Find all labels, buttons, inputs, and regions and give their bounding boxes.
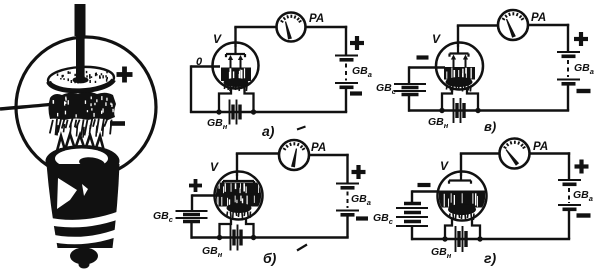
wire: GBc to bottom rail (circuit b) — [190, 222, 192, 239]
label GBa (circuit g) — [573, 189, 593, 203]
stray dash near a) — [297, 127, 306, 130]
vacuum tube V (circuit b) — [215, 172, 263, 220]
label GBa (circuit a) — [352, 65, 372, 79]
minus label near tube (circuit g) — [418, 183, 431, 187]
plus label of GBa (circuit b) — [352, 165, 366, 179]
sub-figure label b) — [263, 250, 277, 266]
filament skirt leads (circuit v) — [442, 88, 478, 111]
minus label near tube (circuit v) — [417, 55, 429, 59]
wire: PA to battery GBa (circuit b) — [309, 154, 349, 183]
battery GBa (circuit v) — [557, 52, 580, 84]
minus label of GBa (circuit g) — [577, 213, 591, 217]
label GBc (circuit v) — [376, 82, 397, 96]
lamp screw base — [44, 145, 127, 269]
label GBn (circuit b) — [202, 245, 223, 259]
junction dot right (circuit b) — [251, 235, 256, 240]
battery GBa (circuit a) — [335, 56, 358, 88]
label GBa (circuit b) — [351, 193, 371, 207]
ammeter PA (circuit b) — [279, 140, 309, 170]
plus label of GBa (circuit g) — [575, 160, 589, 174]
battery GBn filament battery (circuit g) — [456, 226, 467, 252]
wire: PA to battery GBa (circuit g) — [530, 152, 571, 180]
battery GBn filament battery (circuit v) — [454, 98, 465, 123]
wire: tube V anode to top rail (circuit a) — [234, 27, 276, 47]
svg-text:V: V — [210, 160, 219, 174]
svg-text:PA: PA — [531, 12, 546, 24]
filament (glowing mesh) — [49, 92, 117, 120]
svg-text:в): в) — [484, 119, 496, 134]
filament skirt leads (circuit a) — [219, 87, 254, 112]
svg-text:PA: PA — [533, 141, 548, 153]
ammeter PA (circuit v) — [498, 10, 528, 40]
battery GBa (circuit b) — [336, 184, 359, 215]
wire: PA to battery GBa (circuit a) — [306, 26, 348, 55]
label V (circuit v) — [432, 32, 441, 46]
svg-text:PA: PA — [311, 142, 326, 154]
anode disc stipple shading — [57, 71, 108, 84]
label PA (circuit v) — [531, 12, 546, 24]
svg-text:V: V — [213, 32, 222, 46]
electron emission fringe below filament — [50, 118, 112, 138]
plus terminal label (anode) — [117, 67, 133, 83]
junction dot left (circuit g) — [442, 236, 447, 241]
wire: PA to battery GBa (circuit v) — [528, 24, 569, 52]
bottom rail wire (circuit a) — [190, 111, 347, 114]
sub-figure label v) — [484, 119, 496, 134]
anode support rod — [73, 4, 89, 83]
battery GBc (circuit g) — [396, 204, 428, 227]
vacuum tube V (circuit a) — [213, 43, 259, 92]
label V (circuit b) — [210, 160, 219, 174]
bottom rail wire (circuit b) — [191, 236, 349, 239]
battery GBc (circuit v) — [394, 84, 426, 95]
svg-text:а): а) — [262, 123, 275, 139]
label PA (circuit b) — [311, 142, 326, 154]
svg-text:б): б) — [263, 250, 277, 266]
vacuum tube V (circuit g) — [438, 172, 487, 221]
svg-text:PA: PA — [309, 13, 324, 25]
wire: GBa to bottom rail (circuit g) — [568, 211, 570, 239]
ammeter PA (circuit a) — [277, 13, 306, 42]
svg-text:V: V — [432, 32, 441, 46]
plus label of GBa (circuit a) — [350, 36, 364, 50]
anode disc — [47, 65, 114, 92]
node D label (circuit a) — [196, 56, 203, 68]
label GBn (circuit a) — [207, 117, 228, 131]
wire: tube left electrode to left rail (circuit a) — [191, 65, 220, 113]
label GBn (circuit g) — [431, 246, 452, 260]
battery GBn filament battery (circuit b) — [231, 225, 242, 251]
wire: tube V anode to top rail (circuit b) — [236, 154, 280, 177]
wire: GBa to bottom rail (circuit b) — [346, 217, 348, 238]
battery GBa (circuit g) — [558, 180, 581, 209]
label GBn (circuit v) — [428, 116, 449, 130]
wire: tube left electrode to battery GBc (circuit b) — [192, 194, 222, 211]
wire: tube left electrode to battery GBc (circuit v) — [409, 66, 445, 84]
minus label of GBa (circuit v) — [577, 89, 591, 93]
wire: tube left electrode to battery GBc (circuit g) — [412, 190, 438, 203]
bottom rail wire (circuit g) — [411, 238, 570, 241]
junction dot left (circuit v) — [439, 108, 444, 113]
wire: tube V anode to top rail (circuit v) — [457, 26, 498, 48]
bulb envelope — [16, 37, 156, 177]
battery GBn filament battery (circuit a) — [230, 100, 241, 125]
plus label near tube (circuit b) — [189, 179, 202, 192]
filament skirt leads (circuit g) — [445, 220, 480, 240]
wire: GBa to bottom rail (circuit a) — [345, 89, 347, 112]
label PA (circuit a) — [309, 13, 324, 25]
minus label of GBa (circuit a) — [350, 91, 362, 95]
bottom rail wire (circuit v) — [408, 109, 569, 112]
junction dot right (circuit a) — [251, 109, 256, 114]
minus terminal label (filament) — [110, 121, 125, 126]
label GBc of circuit g (placed between circuits) — [373, 212, 394, 226]
battery GBc (circuit b) — [176, 211, 208, 222]
label V (circuit a) — [213, 32, 222, 46]
vacuum tube V (circuit v) — [436, 43, 483, 92]
sub-figure label a) — [262, 123, 275, 139]
wire: GBa to bottom rail (circuit v) — [567, 86, 569, 111]
glass stem crown — [57, 134, 104, 158]
junction dot right (circuit v) — [475, 108, 480, 113]
junction dot left (circuit a) — [216, 109, 221, 114]
svg-text:V: V — [440, 159, 449, 173]
wire: tube V anode to top rail (circuit g) — [460, 154, 500, 177]
wire: GBc to bottom rail (circuit v) — [408, 95, 410, 112]
label V (circuit g) — [440, 159, 449, 173]
junction dot left (circuit b) — [217, 235, 222, 240]
filament lead-in wire — [0, 104, 58, 110]
label GBc (circuit b) — [153, 210, 174, 224]
sub-figure label g) — [484, 250, 496, 266]
filament skirt leads (circuit b) — [220, 218, 254, 238]
minus label of GBa (circuit b) — [356, 216, 368, 220]
label PA (circuit g) — [533, 141, 548, 153]
wire: GBc to bottom rail (circuit g) — [411, 226, 413, 240]
label GBa (circuit v) — [574, 62, 594, 76]
svg-text:г): г) — [484, 250, 496, 266]
stray dash near b) — [297, 245, 307, 251]
plus label of GBa (circuit v) — [574, 32, 588, 46]
junction dot right (circuit g) — [477, 236, 482, 241]
ammeter PA (circuit g) — [500, 139, 530, 169]
